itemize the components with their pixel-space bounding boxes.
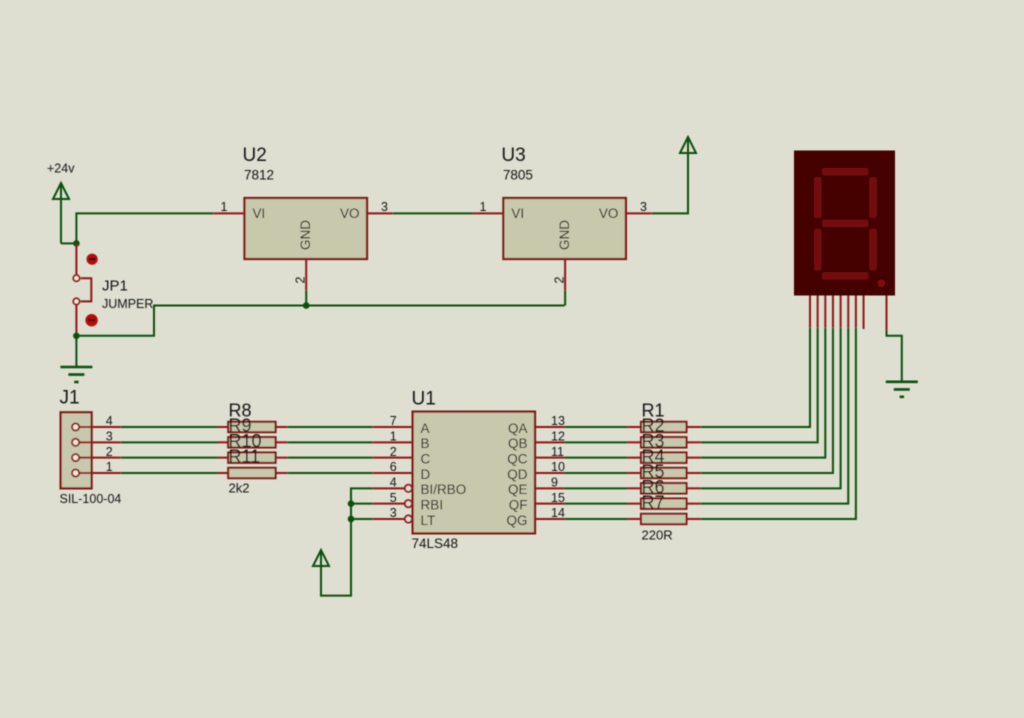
power symbol VCC bottom [313, 550, 329, 566]
wire U1 QE to R5 [565, 487, 628, 489]
resistor R8 2k2 [218, 400, 288, 432]
svg-text:7805: 7805 [503, 168, 533, 183]
wire segment g: display pin to R7 [701, 328, 856, 519]
svg-text:QF: QF [509, 497, 528, 512]
svg-text:VI: VI [253, 206, 266, 221]
resistor R1 220R [628, 400, 701, 432]
resistor R5 220R [628, 462, 701, 494]
7-segment display [794, 151, 895, 331]
wire U3 VO to VCC arrow [652, 138, 688, 213]
wire +24v arrow to junction [61, 242, 76, 244]
wire display common cathode to ground [887, 330, 902, 382]
svg-text:2: 2 [106, 445, 113, 459]
svg-text:U3: U3 [501, 145, 525, 166]
svg-text:2: 2 [294, 277, 308, 284]
ground display [886, 382, 918, 397]
wire U1 QD to R4 [565, 472, 628, 474]
svg-text:QE: QE [508, 482, 528, 497]
svg-text:J1: J1 [60, 388, 80, 409]
svg-text:SIL-100-04: SIL-100-04 [60, 492, 122, 506]
svg-text:D: D [421, 467, 431, 482]
wire segment a: display pin to R1 [701, 328, 810, 427]
svg-text:QC: QC [507, 451, 528, 466]
wire junction up to VI rail of U2 [76, 213, 213, 243]
wire GND rail: junction to U2/U3 GND pins [76, 306, 564, 336]
resistor R9 2k2 [218, 416, 288, 448]
svg-text:QD: QD [507, 467, 528, 482]
wire J1 pin 2 to R10 [121, 457, 218, 459]
resistor R11 2k2 [218, 446, 288, 495]
svg-text:1: 1 [106, 460, 113, 474]
wire segment f: display pin to R6 [701, 328, 849, 504]
svg-text:74LS48: 74LS48 [412, 536, 459, 551]
wire U1 QF to R6 [565, 503, 628, 505]
wire R8 to U1 input A [288, 426, 373, 428]
node RBI junction [348, 500, 355, 507]
svg-text:C: C [421, 451, 431, 466]
resistor R2 220R [628, 416, 701, 448]
power symbol +24v [47, 161, 75, 243]
svg-text:R11: R11 [229, 446, 261, 466]
svg-text:RBI: RBI [421, 497, 444, 512]
wire junction to left ground [75, 336, 77, 367]
resistor R4 220R [628, 446, 701, 478]
wire R10 to U1 input C [288, 457, 373, 459]
svg-text:2: 2 [553, 277, 567, 284]
svg-text:B: B [421, 436, 430, 451]
svg-text:1: 1 [479, 200, 486, 214]
svg-text:JUMPER: JUMPER [102, 297, 153, 311]
svg-text:VO: VO [599, 206, 619, 221]
node LT junction [348, 516, 355, 523]
svg-text:U2: U2 [243, 145, 267, 166]
svg-text:220R: 220R [642, 528, 673, 543]
wire U1 QG to R7 [565, 518, 628, 520]
resistor R7 220R [628, 492, 701, 542]
svg-text:U1: U1 [412, 389, 436, 410]
svg-text:JP1: JP1 [102, 278, 128, 295]
resistor R3 220R [628, 431, 701, 463]
power symbol VCC top right [680, 137, 696, 153]
regulator U2 7812 [214, 145, 393, 306]
svg-text:3: 3 [381, 200, 388, 214]
wire segment d: display pin to R4 [701, 328, 833, 473]
svg-text:3: 3 [106, 430, 113, 444]
svg-text:3: 3 [640, 200, 647, 214]
wire J1 pin 1 to R11 [121, 472, 218, 474]
wire LT/RBI/BI_RBO common to VCC arrow [321, 488, 373, 595]
svg-text:+24v: +24v [47, 161, 75, 175]
jumper JP1 [73, 243, 153, 335]
svg-text:A: A [421, 421, 430, 436]
svg-text:R7: R7 [642, 492, 665, 512]
svg-text:QG: QG [506, 513, 527, 528]
svg-text:VI: VI [511, 206, 524, 221]
wire U1 QC to R3 [565, 457, 628, 459]
svg-text:GND: GND [557, 220, 572, 250]
wire segment e: display pin to R5 [701, 328, 841, 489]
wire segment c: display pin to R3 [701, 328, 826, 458]
node +24v/JP1 junction [73, 240, 80, 247]
svg-text:QB: QB [508, 436, 528, 451]
svg-text:4: 4 [106, 414, 113, 428]
resistor R6 220R [628, 477, 701, 509]
svg-text:VO: VO [340, 206, 360, 221]
svg-text:GND: GND [298, 220, 313, 250]
svg-text:7812: 7812 [244, 168, 274, 183]
svg-text:1: 1 [221, 200, 228, 214]
ground left [60, 367, 92, 382]
regulator U3 7805 [473, 145, 652, 306]
wire U1 QB to R2 [565, 441, 628, 443]
IC U1 74LS48 [373, 389, 565, 552]
wire U1 QA to R1 [565, 426, 628, 428]
wire J1 pin 3 to R9 [121, 441, 218, 443]
wire segment b: display pin to R2 [701, 328, 818, 443]
resistor R10 2k2 [218, 431, 288, 463]
wire U2 VO to U3 VI [393, 212, 473, 214]
wire R11 to U1 input D [288, 472, 373, 474]
svg-text:BI/RBO: BI/RBO [421, 482, 467, 497]
wire R9 to U1 input B [288, 441, 373, 443]
node JP1 bottom / ground junction [73, 333, 80, 340]
svg-text:2k2: 2k2 [229, 481, 250, 496]
connector J1 SIL-100-04 [60, 388, 122, 506]
svg-text:LT: LT [421, 513, 436, 528]
node U2 GND junction [303, 302, 310, 309]
wire J1 pin 4 to R8 [121, 426, 218, 428]
svg-text:QA: QA [508, 421, 528, 436]
